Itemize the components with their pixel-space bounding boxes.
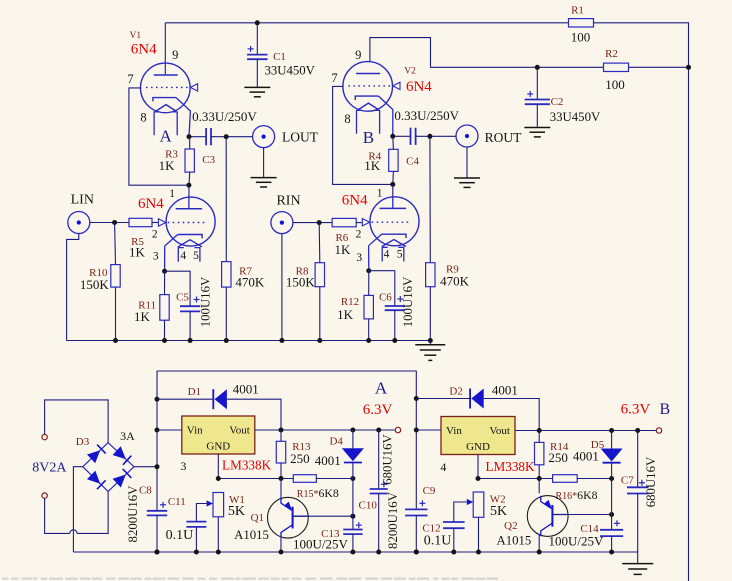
svg-text:8: 8: [344, 112, 350, 126]
svg-text:LM338K: LM338K: [485, 459, 535, 474]
svg-text:C2: C2: [551, 96, 564, 108]
svg-text:R15*6K8: R15*6K8: [297, 486, 339, 500]
svg-text:7: 7: [331, 71, 337, 85]
svg-text:1K: 1K: [337, 307, 354, 322]
svg-text:250: 250: [548, 450, 568, 465]
svg-text:3: 3: [180, 459, 186, 473]
svg-text:33U450V: 33U450V: [264, 64, 315, 78]
svg-text:4: 4: [384, 249, 390, 261]
svg-text:C10: C10: [359, 499, 378, 511]
svg-text:Q1: Q1: [251, 512, 264, 524]
svg-text:C7: C7: [621, 474, 634, 486]
svg-text:1K: 1K: [334, 242, 351, 257]
svg-text:680U16V: 680U16V: [381, 434, 395, 485]
svg-text:R1: R1: [571, 5, 584, 17]
svg-text:150K: 150K: [80, 277, 110, 292]
svg-text:6N4: 6N4: [406, 79, 432, 95]
svg-text:Vout: Vout: [229, 425, 250, 437]
svg-text:D2: D2: [449, 386, 462, 398]
svg-text:1K: 1K: [159, 158, 176, 173]
svg-text:Q2: Q2: [504, 520, 517, 532]
svg-text:D3: D3: [76, 436, 90, 448]
svg-text:4001: 4001: [233, 381, 259, 396]
svg-text:470K: 470K: [440, 274, 470, 289]
svg-text:100: 100: [571, 30, 591, 45]
svg-text:1: 1: [169, 188, 175, 200]
svg-text:0.33U/250V: 0.33U/250V: [192, 109, 257, 124]
svg-text:1K: 1K: [364, 158, 381, 173]
svg-text:8: 8: [140, 111, 146, 125]
svg-text:6N4: 6N4: [131, 42, 157, 58]
svg-text:R16*6K8: R16*6K8: [556, 488, 598, 502]
svg-text:3A: 3A: [120, 429, 135, 443]
svg-text:C11: C11: [168, 496, 186, 508]
svg-text:8200U16V: 8200U16V: [386, 491, 400, 549]
svg-text:RIN: RIN: [276, 194, 300, 209]
svg-text:0.1U: 0.1U: [166, 528, 194, 543]
svg-text:4001: 4001: [573, 448, 599, 463]
svg-text:4001: 4001: [315, 453, 341, 468]
svg-text:V1: V1: [129, 31, 141, 41]
svg-text:5: 5: [193, 250, 199, 262]
svg-text:B: B: [363, 128, 374, 147]
svg-text:R2: R2: [605, 48, 618, 60]
svg-text:D1: D1: [188, 386, 201, 398]
svg-text:1: 1: [377, 188, 383, 200]
svg-text:100: 100: [605, 77, 625, 92]
svg-text:LIN: LIN: [71, 193, 94, 208]
svg-text:4001: 4001: [492, 383, 518, 398]
svg-text:33U450V: 33U450V: [550, 110, 601, 124]
svg-text:A1015: A1015: [496, 533, 531, 547]
svg-text:6N4: 6N4: [342, 193, 368, 209]
svg-text:2: 2: [152, 229, 158, 241]
svg-text:C5: C5: [176, 292, 189, 304]
svg-text:5: 5: [397, 249, 403, 261]
svg-text:V2: V2: [404, 67, 416, 77]
svg-text:0.33U/250V: 0.33U/250V: [394, 108, 459, 123]
svg-text:C3: C3: [202, 154, 215, 166]
svg-text:7: 7: [127, 72, 133, 86]
svg-text:C4: C4: [406, 156, 419, 168]
svg-text:100U/25V: 100U/25V: [293, 537, 349, 552]
svg-text:C8: C8: [139, 485, 152, 497]
svg-text:LM338K: LM338K: [222, 457, 272, 472]
svg-text:8V2A: 8V2A: [32, 461, 67, 476]
svg-text:C1: C1: [273, 51, 286, 63]
svg-text:ROUT: ROUT: [485, 130, 523, 145]
svg-text:4: 4: [440, 460, 446, 474]
svg-text:4: 4: [180, 250, 186, 262]
svg-text:100U/25V: 100U/25V: [549, 533, 605, 548]
svg-text:A: A: [159, 127, 172, 146]
svg-text:100U16V: 100U16V: [401, 276, 415, 327]
svg-text:680U16V: 680U16V: [644, 456, 658, 507]
svg-text:LOUT: LOUT: [282, 130, 319, 145]
svg-text:5K: 5K: [228, 504, 245, 519]
svg-text:9: 9: [172, 48, 178, 62]
svg-text:2: 2: [356, 228, 362, 240]
svg-text:1K: 1K: [134, 309, 151, 324]
svg-text:6.3V: 6.3V: [621, 401, 651, 417]
svg-text:GND: GND: [466, 441, 490, 453]
svg-text:A1015: A1015: [234, 528, 269, 542]
svg-text:B: B: [659, 401, 670, 418]
svg-text:5K: 5K: [490, 504, 507, 519]
svg-text:250: 250: [290, 451, 310, 466]
svg-text:C9: C9: [423, 485, 436, 497]
svg-text:Vout: Vout: [489, 425, 510, 437]
svg-text:0.1U: 0.1U: [424, 533, 452, 548]
svg-text:D4: D4: [329, 435, 343, 447]
svg-text:6N4: 6N4: [138, 196, 164, 212]
svg-text:100U16V: 100U16V: [199, 276, 213, 327]
svg-text:150K: 150K: [286, 275, 316, 290]
svg-text:A: A: [375, 378, 388, 397]
svg-text:3: 3: [356, 252, 362, 264]
svg-text:Vin: Vin: [187, 425, 203, 437]
svg-text:Vin: Vin: [446, 425, 462, 437]
svg-text:8200U16V: 8200U16V: [126, 485, 140, 543]
svg-text:6.3V: 6.3V: [363, 402, 393, 418]
svg-text:1K: 1K: [129, 245, 146, 260]
svg-text:3: 3: [153, 251, 159, 263]
svg-text:GND: GND: [206, 441, 230, 453]
svg-text:C6: C6: [379, 291, 392, 303]
svg-text:9: 9: [355, 48, 361, 62]
svg-text:470K: 470K: [235, 274, 265, 289]
